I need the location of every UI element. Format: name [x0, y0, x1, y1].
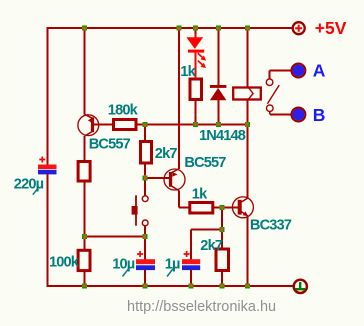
svg-text:180k: 180k: [108, 103, 139, 119]
svg-text:BC557: BC557: [184, 155, 226, 171]
svg-text:1k: 1k: [192, 187, 208, 203]
svg-text:B: B: [313, 105, 326, 125]
svg-text:+5V: +5V: [315, 18, 347, 38]
svg-text:1N4148: 1N4148: [199, 128, 246, 144]
svg-text:2k7: 2k7: [200, 238, 223, 254]
svg-text:2k7: 2k7: [155, 146, 178, 162]
svg-text:220µ: 220µ: [14, 177, 44, 193]
svg-text:100k: 100k: [49, 255, 80, 271]
svg-text:1k: 1k: [180, 64, 196, 80]
svg-text:A: A: [313, 60, 326, 80]
svg-text:BC337: BC337: [250, 217, 292, 233]
svg-text:BC557: BC557: [89, 136, 131, 152]
svg-text:10µ: 10µ: [112, 256, 135, 272]
svg-text:http://bsselektronika.hu: http://bsselektronika.hu: [127, 299, 276, 315]
